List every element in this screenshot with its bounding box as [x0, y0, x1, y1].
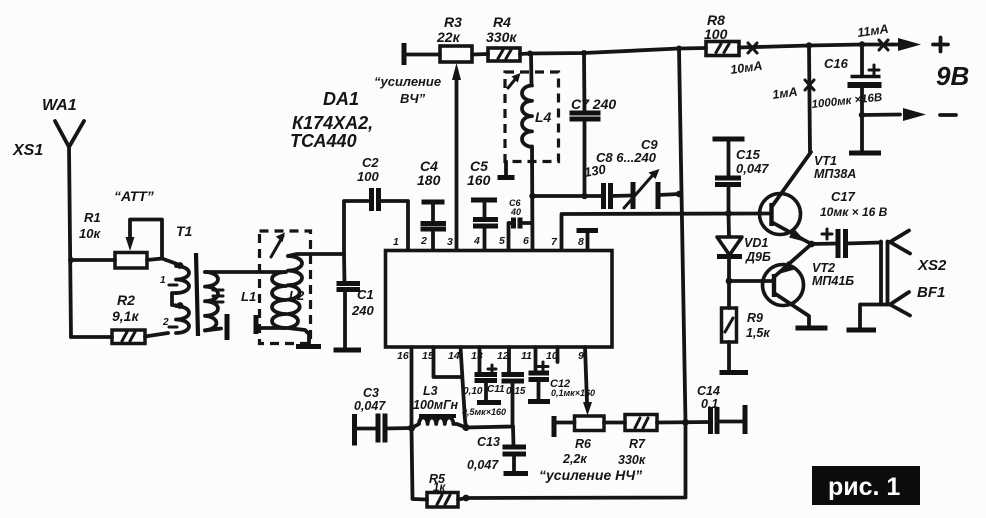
plus output arrow [893, 43, 903, 47]
transistor VT2 [763, 265, 804, 306]
capacitor C8 [604, 183, 611, 209]
capacitor C3 [352, 414, 357, 446]
resistor R8 [706, 42, 739, 56]
svg-text:100: 100 [704, 26, 728, 42]
capacitor C5 [471, 198, 497, 203]
svg-text:ТСА440: ТСА440 [290, 131, 357, 151]
wire L1 bottom [261, 326, 285, 330]
svg-text:16: 16 [397, 350, 409, 362]
wire 1mA to VT1 collector [809, 46, 810, 153]
svg-text:C3: C3 [363, 386, 379, 400]
wire R3 to R4 [472, 52, 488, 56]
capacitor C15 [713, 137, 745, 142]
ground pin 8 [586, 232, 590, 250]
svg-text:R6: R6 [575, 437, 592, 451]
capacitor C7 [582, 53, 586, 112]
ground T1-III [225, 314, 230, 340]
svg-text:330к: 330к [618, 453, 646, 467]
svg-text:40: 40 [510, 207, 521, 217]
svg-text:С11: С11 [487, 384, 505, 395]
svg-text:рис. 1: рис. 1 [828, 473, 900, 501]
dashed box L4 [505, 72, 559, 162]
svg-text:К174ХА2,: К174ХА2, [292, 113, 373, 133]
wire C1 up to C2 [344, 201, 368, 254]
tuning arrow L2 [271, 236, 283, 257]
capacitor C17 [812, 242, 838, 246]
svg-text:100мГн: 100мГн [413, 398, 458, 412]
resistor R2 [71, 335, 112, 339]
svg-text:240: 240 [351, 303, 374, 318]
diode VD1 [727, 214, 731, 237]
dashed box L2 [260, 231, 311, 344]
capacitor C6 [509, 223, 514, 250]
svg-text:0,047: 0,047 [736, 161, 769, 176]
wire pin 7 [562, 214, 772, 251]
transistor VT1 [760, 194, 801, 235]
svg-text:R1: R1 [84, 210, 101, 225]
svg-text:0,10: 0,10 [463, 386, 483, 397]
inductor L3 [419, 414, 456, 418]
svg-text:L2: L2 [289, 288, 305, 303]
long vertical wire from rail to R7 node [466, 49, 686, 499]
connector XS2 BF1 [881, 242, 888, 305]
node C16 [859, 41, 865, 47]
ground C1 [334, 348, 362, 353]
oscillator wire with C8 C9 [533, 194, 604, 198]
svg-text:C14: C14 [697, 384, 720, 398]
svg-text:11: 11 [521, 350, 532, 362]
resistor R3 (potentiometer) [440, 46, 472, 62]
rail after R8 [739, 45, 893, 48]
transformer T1 core [196, 253, 198, 336]
node emitters C17 [808, 241, 815, 248]
wire node B to C13 [466, 427, 513, 428]
capacitor C9 (trimmer) [633, 182, 658, 209]
ground VT2 collector [796, 326, 828, 331]
svg-text:L4: L4 [535, 109, 552, 125]
svg-text:160: 160 [467, 172, 491, 188]
svg-text:100: 100 [357, 169, 379, 184]
ground R6 left [552, 416, 557, 437]
svg-text:Д9Б: Д9Б [745, 250, 771, 264]
svg-text:R4: R4 [493, 14, 511, 30]
capacitor C14 [711, 407, 718, 434]
wire pin 16 down to R5 [412, 347, 428, 500]
svg-text:ВЧ”: ВЧ” [400, 91, 426, 106]
resistor R1 (potentiometer) [115, 253, 147, 269]
svg-text:DA1: DA1 [323, 89, 359, 109]
wire pin 10 stub [556, 347, 560, 362]
svg-text:1,5к: 1,5к [746, 326, 770, 340]
svg-text:C8 6...240: C8 6...240 [596, 150, 657, 165]
wire to R3 [404, 53, 440, 57]
capacitor C4 [422, 200, 445, 205]
minus output arrow [862, 113, 900, 117]
svg-text:1: 1 [393, 236, 399, 248]
svg-text:R9: R9 [747, 311, 763, 325]
capacitor C11 [507, 347, 511, 374]
capacitor C2 [372, 188, 379, 211]
svg-text:180: 180 [417, 172, 441, 188]
svg-text:8: 8 [578, 236, 584, 248]
transformer T1 winding III [205, 272, 218, 330]
R3 wiper to pin 3 [455, 80, 459, 250]
svg-text:9: 9 [578, 350, 584, 362]
svg-text:C1: C1 [357, 287, 374, 302]
svg-text:C15: C15 [736, 147, 761, 162]
svg-text:22к: 22к [436, 29, 461, 45]
svg-text:Т1: Т1 [176, 223, 193, 239]
svg-text:“усиление НЧ”: “усиление НЧ” [539, 467, 642, 483]
wire L2 bottom to ground [288, 328, 309, 344]
terminal bar left of R3 [402, 43, 407, 65]
svg-text:0,5мк×160: 0,5мк×160 [462, 407, 506, 417]
wire pin 9 to R6 wiper [585, 347, 587, 402]
svg-text:C7 240: C7 240 [571, 96, 616, 112]
node B pin14 [462, 424, 469, 431]
node A pin16 [408, 424, 415, 431]
wire T1-III top to L1 [205, 270, 285, 274]
wire T1-III bottom [205, 329, 221, 331]
antenna WA1 [55, 121, 84, 147]
wire C2 to pin 1 [379, 201, 409, 250]
resistor R9 [727, 281, 731, 308]
svg-text:330к: 330к [486, 29, 517, 45]
svg-text:R3: R3 [444, 14, 462, 30]
ground R9 [720, 370, 749, 375]
svg-text:L3: L3 [423, 384, 438, 398]
svg-text:L1: L1 [241, 289, 256, 304]
ground of L4 box [504, 162, 508, 176]
svg-text:“усиление: “усиление [374, 74, 441, 89]
capacitor C1 [342, 254, 346, 283]
svg-text:10к: 10к [79, 226, 101, 241]
wire pin 15 [434, 347, 461, 377]
svg-text:VT1: VT1 [814, 154, 837, 168]
capacitor C10 [478, 347, 482, 374]
svg-text:XS2: XS2 [917, 257, 947, 274]
ground C14 [743, 405, 748, 434]
svg-text:4: 4 [473, 235, 480, 247]
svg-text:VD1: VD1 [744, 236, 768, 250]
svg-text:R7: R7 [629, 437, 646, 451]
tuning arrow L4 [508, 77, 517, 88]
node R1-R2 left junction [68, 257, 74, 263]
svg-text:0,15: 0,15 [506, 386, 526, 397]
svg-text:6: 6 [523, 235, 529, 247]
svg-text:1: 1 [160, 275, 166, 286]
wire R7 to node [657, 420, 710, 424]
x mark 11mA [879, 40, 888, 50]
svg-text:МП41Б: МП41Б [812, 274, 854, 288]
svg-text:5: 5 [499, 235, 505, 247]
transformer T1 winding II [177, 302, 184, 309]
ground L2 [296, 344, 321, 349]
wire to R1 [71, 258, 115, 262]
inductor L2 [288, 256, 302, 328]
svg-text:2,2к: 2,2к [562, 452, 587, 466]
svg-text:9,1к: 9,1к [112, 308, 139, 324]
wire L2 top to C1 [288, 254, 344, 256]
svg-text:9В: 9В [936, 61, 969, 91]
capacitor C13 [511, 427, 515, 447]
svg-text:C16: C16 [824, 56, 849, 71]
svg-text:3: 3 [447, 236, 453, 248]
svg-text:0,1: 0,1 [701, 397, 718, 411]
resistor R7 [625, 415, 657, 431]
node 1mA branch [806, 42, 812, 48]
wiper loop of R1 [130, 220, 162, 259]
svg-text:“АТТ”: “АТТ” [114, 188, 154, 204]
IC DA1 [386, 251, 613, 348]
wire R1 right to T1 [147, 259, 177, 265]
ground XS2 [847, 328, 877, 333]
svg-text:12: 12 [497, 350, 509, 362]
transformer T1 winding I [177, 262, 184, 269]
svg-text:10мк × 16 В: 10мк × 16 В [820, 205, 888, 219]
x mark 10mA [748, 43, 757, 53]
svg-text:C17: C17 [831, 189, 856, 204]
figure label [812, 466, 920, 505]
svg-text:C2: C2 [362, 155, 379, 170]
capacitor C12 [534, 347, 538, 373]
svg-text:1к: 1к [433, 482, 446, 494]
inductor L4 [529, 54, 533, 86]
resistor R5 [427, 493, 458, 508]
resistor R4 [488, 48, 520, 61]
svg-text:XS1: XS1 [12, 142, 43, 159]
wire pin 14 down to node B [461, 347, 467, 428]
ground L1 [254, 315, 259, 334]
wire antenna down [69, 147, 71, 337]
wire R2 right to T1 [145, 333, 168, 337]
inductor L1 [272, 272, 286, 328]
svg-text:2: 2 [420, 235, 427, 247]
ground C16 [849, 151, 881, 156]
wire R6 to R7 [604, 421, 625, 425]
svg-text:0,047: 0,047 [467, 458, 499, 472]
svg-text:МП38А: МП38А [814, 167, 856, 181]
svg-text:VT2: VT2 [812, 261, 835, 275]
svg-text:BF1: BF1 [917, 284, 945, 301]
svg-text:R2: R2 [117, 292, 135, 308]
node VD1-R9-VT2 [726, 278, 733, 285]
svg-text:0,047: 0,047 [354, 399, 386, 413]
power rail top [520, 48, 706, 54]
svg-text:C13: C13 [477, 435, 500, 449]
svg-text:14: 14 [448, 350, 460, 362]
resistor R6 (potentiometer) [575, 416, 605, 431]
svg-text:WA1: WA1 [42, 97, 77, 114]
wire L4 bottom to pin 6 [530, 147, 534, 251]
